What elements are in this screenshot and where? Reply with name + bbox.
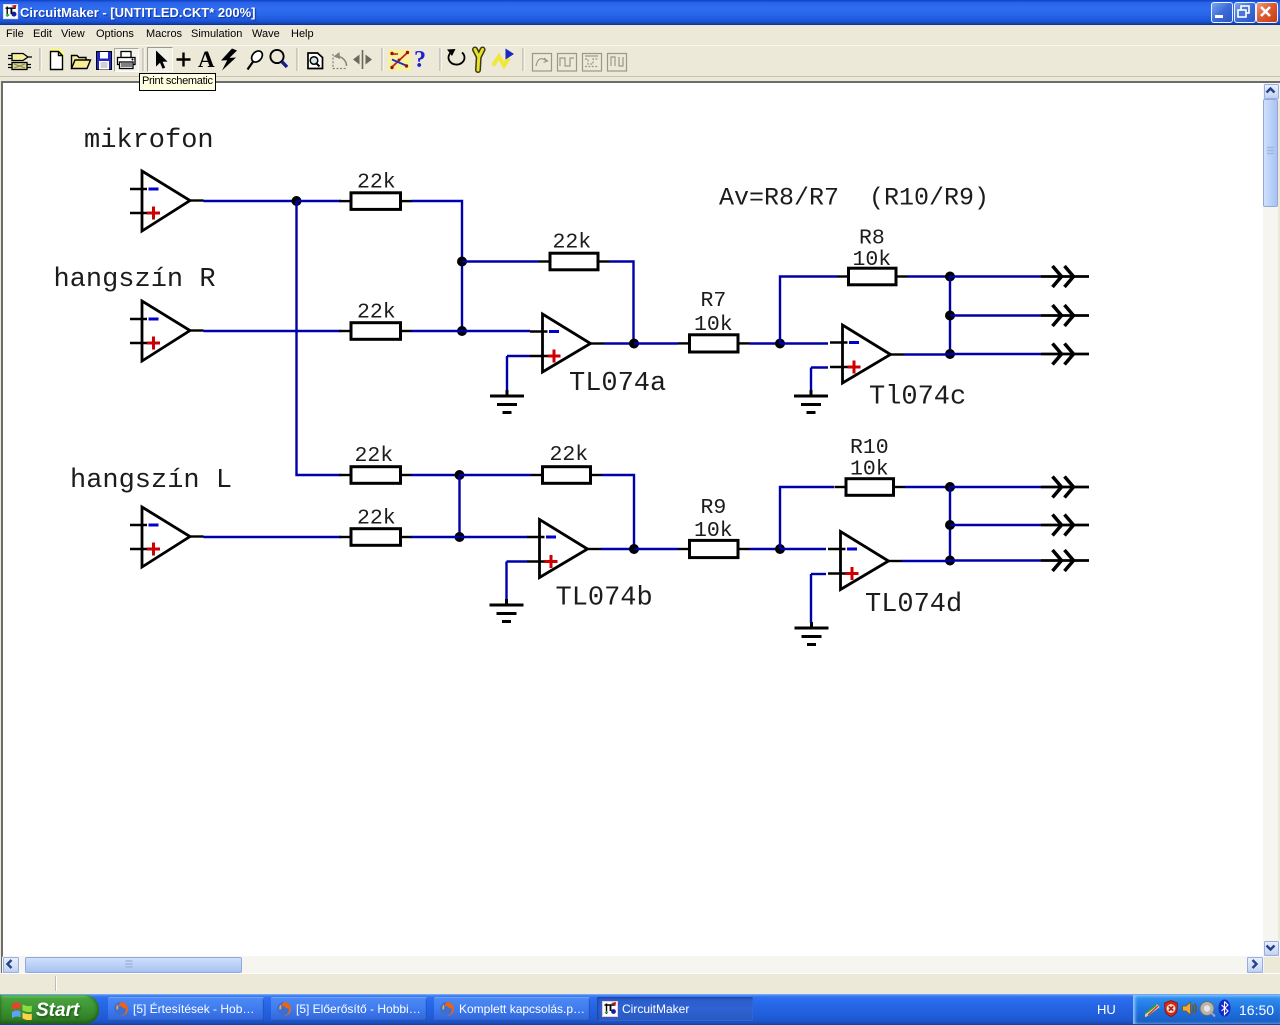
horizontal scrollbar xyxy=(3,956,1263,973)
wire summing node to TL074b inverting input xyxy=(460,536,528,538)
wire hangszin L output xyxy=(204,536,342,538)
tooltip Print schematic xyxy=(139,73,216,91)
wire to TL074c inverting input xyxy=(780,342,828,344)
svg-text:22k: 22k xyxy=(357,301,396,325)
ground xyxy=(490,599,524,622)
svg-text:hangszín R: hangszín R xyxy=(54,265,216,295)
svg-text:22k: 22k xyxy=(355,444,394,468)
wire mikrofon output xyxy=(204,200,297,202)
node output bus top R xyxy=(945,272,955,282)
resistor R10 10k xyxy=(835,479,906,496)
svg-text:mikrofon: mikrofon xyxy=(84,126,214,156)
resistor 22k (hangszin L to sum) xyxy=(340,529,413,546)
wire to output port 4 xyxy=(950,486,1041,488)
wire to feedback resistor R xyxy=(462,260,539,262)
wire to feedback resistor L xyxy=(460,474,532,476)
node TL074c inverting input xyxy=(775,339,785,349)
start button xyxy=(0,995,99,1024)
wire R10 to output bus L xyxy=(905,486,950,488)
wire node up to R10 xyxy=(780,487,834,549)
output port connector xyxy=(1041,266,1089,287)
svg-text:Tl074c: Tl074c xyxy=(869,383,966,413)
title bar xyxy=(0,0,1280,25)
node output bus mid R xyxy=(945,311,955,321)
ground xyxy=(795,622,829,645)
wire to output port 2 xyxy=(950,314,1041,316)
svg-text:R10: R10 xyxy=(850,436,889,460)
svg-text:TL074b: TL074b xyxy=(556,584,653,614)
wire R8 to output bus xyxy=(908,275,951,277)
svg-text:22k: 22k xyxy=(550,443,589,467)
resistor 22k (feedback TL074b) xyxy=(531,467,602,484)
wire TL074b non-inverting input xyxy=(507,560,528,562)
svg-text:R9: R9 xyxy=(701,496,727,520)
resistor R8 10k xyxy=(837,268,908,285)
wire to R7 xyxy=(634,342,678,344)
node feedback tap R xyxy=(457,257,467,267)
wire to ground TL074d xyxy=(810,574,812,623)
wire to output port 3 xyxy=(950,353,1041,355)
status bar xyxy=(0,973,1280,995)
wire R3 to summing node R xyxy=(412,330,463,332)
wire feedback to output L xyxy=(602,475,634,549)
wire to ground TL074a xyxy=(506,356,508,391)
wire to output port 1 xyxy=(950,275,1041,277)
taskbar xyxy=(0,994,1280,1025)
wire mikrofon to L summing xyxy=(297,201,342,475)
node output bus mid L xyxy=(945,520,955,530)
output port connector xyxy=(1041,550,1089,571)
svg-text:22k: 22k xyxy=(553,231,592,255)
wire TL074a non-inverting input xyxy=(507,355,530,357)
output port connector xyxy=(1041,305,1089,326)
wire to ground TL074c xyxy=(810,368,812,392)
wire to R9 xyxy=(634,548,678,550)
op-amp TL074a xyxy=(530,314,604,372)
node TL074d inverting input xyxy=(775,544,785,554)
wire output bus vertical L xyxy=(949,487,951,561)
wire output bus vertical R xyxy=(949,277,951,355)
menu bar xyxy=(0,25,1280,45)
node TL074a out xyxy=(629,339,639,349)
wire R1 to summing node R xyxy=(412,201,463,331)
node summing L xyxy=(455,532,465,542)
wire R6 to summing node L xyxy=(412,536,460,538)
svg-text:?: ? xyxy=(414,47,426,73)
restore button xyxy=(1234,2,1256,23)
wire node up to R8 xyxy=(780,277,837,344)
system tray xyxy=(1133,995,1280,1024)
svg-text:22k: 22k xyxy=(357,171,396,195)
op-amp TL074b xyxy=(527,520,601,578)
resistor 22k (hangszin R to sum) xyxy=(340,323,413,340)
app window icon xyxy=(3,4,19,20)
wire to R1 xyxy=(297,200,342,202)
toolbar xyxy=(0,45,1280,77)
svg-text:R8: R8 xyxy=(859,227,885,251)
node TL074b out xyxy=(629,544,639,554)
vertical scrollbar xyxy=(1263,83,1278,956)
wire TL074a output xyxy=(604,342,634,344)
wire R9 to node xyxy=(750,548,781,550)
close button xyxy=(1256,2,1278,23)
resistor R9 10k xyxy=(678,540,750,557)
wire to ground TL074b xyxy=(505,562,507,601)
wire TL074d non-inverting input xyxy=(811,573,826,575)
node output bus bottom R xyxy=(945,349,955,359)
resistor R7 10k xyxy=(678,335,750,352)
node summing R xyxy=(457,326,467,336)
wire to output port 5 xyxy=(950,524,1041,526)
svg-text:22k: 22k xyxy=(357,507,396,531)
ground xyxy=(794,390,828,413)
svg-text:A: A xyxy=(198,47,215,72)
resistor 22k (feedback TL074a) xyxy=(539,253,610,270)
resistor 22k (mikrofon to sum L) xyxy=(340,467,413,484)
svg-text:TL074d: TL074d xyxy=(865,590,962,620)
wire R4 to node L xyxy=(412,474,460,476)
wire hangszin R output xyxy=(204,330,342,332)
node feedback tap L xyxy=(455,470,465,480)
wire summing vertical L xyxy=(458,475,460,537)
wire R7 to node xyxy=(750,342,781,344)
task button xyxy=(597,997,753,1021)
op-amp U2 hangszin R buffer xyxy=(130,301,204,361)
op-amp U1 mikrofon buffer xyxy=(130,171,204,231)
minimize button xyxy=(1211,2,1233,23)
op-amp Tl074c xyxy=(830,325,904,383)
wire feedback to output R xyxy=(610,262,634,344)
resistor 22k (mikrofon to sum R) xyxy=(340,193,413,210)
output port connector xyxy=(1041,344,1089,365)
node output bus bottom L xyxy=(945,556,955,566)
svg-text:10k: 10k xyxy=(694,313,733,337)
output port connector xyxy=(1041,477,1089,498)
clock xyxy=(1239,1002,1274,1018)
svg-text:10k: 10k xyxy=(694,519,733,543)
node output bus top L xyxy=(945,482,955,492)
wire to TL074d inverting input xyxy=(780,548,826,550)
output port connector xyxy=(1041,515,1089,536)
svg-text:hangszín L: hangszín L xyxy=(70,466,232,496)
svg-text:R7: R7 xyxy=(701,289,727,313)
wire TL074c output xyxy=(904,353,950,355)
svg-text:10k: 10k xyxy=(850,458,889,482)
language indicator xyxy=(1097,1002,1116,1017)
ground xyxy=(490,390,524,413)
op-amp TL074d xyxy=(828,532,902,590)
wire TL074c non-inverting input xyxy=(811,366,828,368)
svg-text:10k: 10k xyxy=(853,248,892,272)
task button xyxy=(434,997,590,1021)
wire TL074d output xyxy=(902,560,950,562)
wire to output port 6 xyxy=(950,559,1041,561)
task button xyxy=(271,997,427,1021)
op-amp U3 hangszin L buffer xyxy=(130,507,204,567)
task button xyxy=(108,997,264,1021)
svg-text:Av=R8/R7 (R10/R9): Av=R8/R7 (R10/R9) xyxy=(719,184,989,213)
wire TL074b output xyxy=(601,548,634,550)
svg-text:TL074a: TL074a xyxy=(569,369,666,399)
wire summing node to TL074a inverting input xyxy=(462,330,530,332)
node mikrofon out xyxy=(292,196,302,206)
